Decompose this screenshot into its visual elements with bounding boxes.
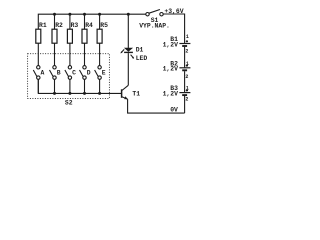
dashed enclosure S2 [28,54,110,99]
svg-text:LED: LED [136,55,148,62]
node rail R4 [83,13,86,16]
battery B3 [179,93,190,96]
node bus D [83,92,86,95]
svg-text:D1: D1 [136,46,144,53]
svg-text:D: D [87,70,91,77]
plus mark B3 [186,89,188,91]
node bus B [53,92,56,95]
node rail R3 [68,13,71,16]
wire top rail [38,14,146,29]
transistor T1 [122,85,129,99]
resistor R3 [67,14,72,43]
svg-text:+3,6V: +3,6V [164,8,183,15]
svg-text:1,2V: 1,2V [163,41,179,48]
node bus C [68,92,71,95]
svg-text:R3: R3 [71,22,79,29]
plus mark B2 [186,65,188,67]
svg-text:1: 1 [186,34,189,40]
wire B2 to B3 [184,71,186,92]
svg-text:C: C [72,70,76,77]
svg-text:B: B [57,70,61,77]
node rail R2 [53,13,56,16]
resistor R1 [36,29,41,43]
svg-text:R2: R2 [55,22,63,29]
svg-text:1,2V: 1,2V [163,90,179,97]
switch C [65,66,72,93]
battery B1 [179,44,190,47]
svg-text:R1: R1 [39,22,47,29]
wire R2 to switch B [54,43,56,65]
wire B1 to B2 [184,47,186,68]
svg-text:2: 2 [185,97,188,103]
switch S1 [146,10,163,16]
node bus E [98,92,101,95]
svg-text:S2: S2 [65,100,73,107]
LED D1 branch wire from rail [127,14,129,48]
resistor R2 [52,14,57,43]
svg-text:R5: R5 [100,22,108,29]
svg-text:R4: R4 [85,22,93,29]
resistor R4 [82,14,87,43]
diode D1 LED [120,48,134,59]
node rail LED [127,13,130,16]
node rail R5 [98,13,101,16]
wire LED cathode to collector [127,53,129,85]
svg-text:1,2V: 1,2V [163,66,179,73]
wire B3 to bottom rail [184,96,186,113]
svg-text:T1: T1 [132,90,140,97]
wire R5 to switch E [99,43,101,65]
wire R4 to switch D [84,43,86,65]
switch D [80,66,87,93]
wire top right segment to corner [163,14,184,43]
svg-text:2: 2 [185,49,188,55]
svg-text:0V: 0V [170,106,178,113]
switch A [33,66,40,93]
svg-text:E: E [102,70,106,77]
svg-text:VYP.NAP.: VYP.NAP. [139,23,170,30]
svg-text:A: A [41,70,45,77]
resistor R5 [97,14,102,43]
plus mark B1 [186,40,188,42]
wire R1 to switch A [37,43,39,65]
wire emitter to bottom rail [128,99,185,113]
battery B2 [179,68,190,71]
wire R3 to switch C [69,43,71,65]
wire base bus [38,79,121,93]
switch E [95,66,102,93]
svg-text:2: 2 [185,74,188,80]
switch B [50,66,57,93]
